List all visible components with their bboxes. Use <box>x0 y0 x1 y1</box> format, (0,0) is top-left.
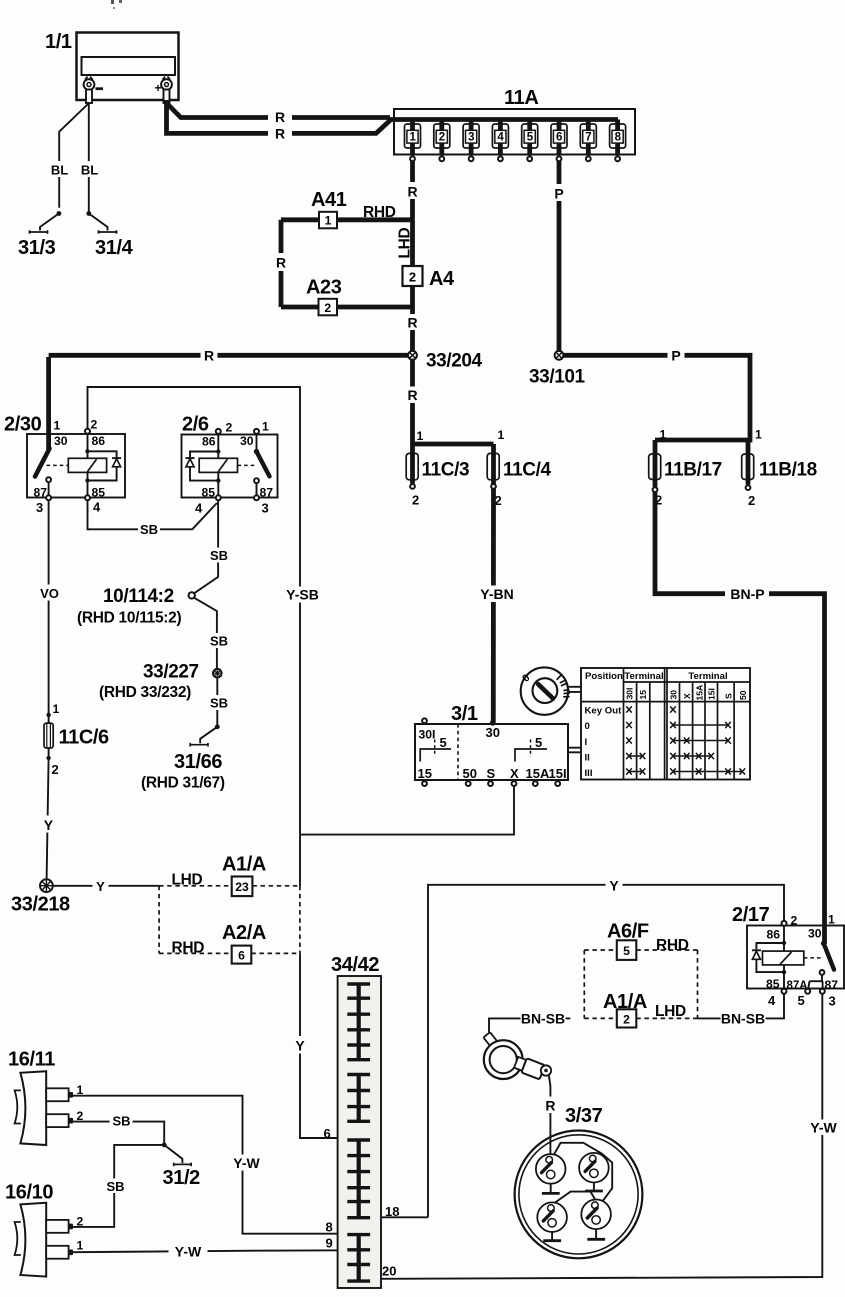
wire SB 16/11 pin2 to ground junction <box>73 1122 164 1145</box>
svg-text:3/1: 3/1 <box>451 703 478 725</box>
svg-text:50: 50 <box>463 766 477 781</box>
svg-text:15I: 15I <box>549 766 567 781</box>
svg-text:(RHD 31/67): (RHD 31/67) <box>141 775 225 792</box>
svg-text:1/1: 1/1 <box>45 31 72 53</box>
diode branch <box>756 943 784 972</box>
wire Y 11C/6 down to node 33/218 <box>47 748 49 879</box>
svg-text:3: 3 <box>829 994 836 1009</box>
fuse 11C/6 <box>44 702 109 777</box>
connector A4 pin 2 <box>403 266 456 290</box>
svg-text:III: III <box>585 768 593 779</box>
svg-text:SB: SB <box>140 522 158 537</box>
fuse 11C/4 <box>487 428 551 508</box>
svg-text:16/11: 16/11 <box>8 1049 55 1071</box>
svg-text:X: X <box>682 693 692 699</box>
svg-text:2: 2 <box>52 762 59 777</box>
wire SB 2/6 pin4 down to connector 10/114:2 <box>194 500 218 593</box>
svg-text:23: 23 <box>235 880 249 894</box>
svg-text:SB: SB <box>210 548 228 563</box>
wire BN-SB left to lamp socket <box>489 1018 570 1035</box>
svg-text:1: 1 <box>409 132 416 144</box>
svg-text:34/42: 34/42 <box>331 954 379 976</box>
svg-text:2/17: 2/17 <box>732 904 770 926</box>
svg-text:6: 6 <box>556 132 562 144</box>
wire horizontal 11C/3 to 11C/4 <box>413 442 494 447</box>
wire SB 33/227 to ground 31/66 <box>216 677 218 727</box>
svg-text:R: R <box>407 315 417 331</box>
svg-text:2: 2 <box>226 421 233 435</box>
wire SB junction down to 16/10 pin2 <box>73 1145 164 1227</box>
svg-text:Key Out: Key Out <box>585 706 623 717</box>
svg-text:15: 15 <box>638 690 648 700</box>
svg-text:1: 1 <box>498 428 505 442</box>
fuse 2 <box>434 120 450 162</box>
svg-text:Y-BN: Y-BN <box>480 586 513 602</box>
svg-text:30: 30 <box>240 434 254 448</box>
svg-text:6: 6 <box>324 1126 331 1141</box>
svg-text:11C/6: 11C/6 <box>59 727 110 749</box>
battery 1/1 <box>45 31 179 100</box>
svg-text:15I: 15I <box>707 688 717 700</box>
svg-text:8: 8 <box>615 132 622 144</box>
svg-text:18: 18 <box>385 1204 399 1219</box>
svg-text:15A: 15A <box>526 766 550 781</box>
svg-text:30: 30 <box>669 690 679 700</box>
bus wire <box>388 117 618 122</box>
svg-text:31/3: 31/3 <box>18 237 56 259</box>
node 33/204 <box>408 351 482 372</box>
svg-text:1: 1 <box>262 420 269 434</box>
svg-text:S: S <box>487 766 496 781</box>
wire P from 33/101 to 11B fuses <box>563 355 750 440</box>
svg-text:0: 0 <box>585 721 590 732</box>
svg-text:50: 50 <box>738 690 748 700</box>
coil wire <box>783 926 785 989</box>
svg-text:15: 15 <box>418 766 432 781</box>
svg-text:R: R <box>545 1098 555 1114</box>
svg-text:11A: 11A <box>504 87 538 109</box>
connector A2/A pin 6 <box>222 922 266 964</box>
fuse 7 <box>580 120 596 162</box>
svg-text:86: 86 <box>767 928 781 942</box>
bulb bottom-right <box>581 1200 611 1240</box>
node 33/218 <box>11 879 70 915</box>
lamp cluster 3/37 <box>515 1105 643 1258</box>
svg-text:2: 2 <box>791 914 798 928</box>
svg-text:1: 1 <box>755 428 762 442</box>
svg-text:30I: 30I <box>625 688 635 700</box>
svg-text:31/2: 31/2 <box>163 1167 201 1189</box>
svg-text:2: 2 <box>324 301 331 315</box>
svg-text:11C/3: 11C/3 <box>422 460 470 481</box>
svg-text:(RHD 10/115:2): (RHD 10/115:2) <box>77 610 181 627</box>
svg-text:30: 30 <box>808 927 822 941</box>
bulb top-left <box>536 1154 566 1193</box>
svg-text:1: 1 <box>660 428 667 442</box>
svg-text:3/37: 3/37 <box>565 1105 603 1127</box>
svg-text:SB: SB <box>210 696 228 711</box>
bulb socket with plug <box>483 1032 551 1079</box>
ignition key symbol <box>520 667 581 714</box>
svg-text:3: 3 <box>262 501 269 516</box>
node 33/227 <box>99 662 222 702</box>
connector 10/114:2 <box>77 586 195 627</box>
svg-text:Y-W: Y-W <box>175 1244 202 1260</box>
svg-text:15A: 15A <box>694 685 704 701</box>
svg-text:2: 2 <box>439 132 445 144</box>
coil <box>199 458 237 472</box>
svg-text:87: 87 <box>825 978 839 992</box>
fuse 11B/18 <box>742 428 817 509</box>
svg-text:R: R <box>275 109 285 125</box>
lamp 16/11 <box>8 1049 84 1146</box>
fuse 4 <box>492 120 508 162</box>
svg-text:30: 30 <box>486 725 500 740</box>
svg-text:1: 1 <box>828 913 835 927</box>
svg-text:11C/4: 11C/4 <box>503 460 551 481</box>
svg-text:Y-W: Y-W <box>810 1120 837 1136</box>
mech dashed link <box>238 464 258 466</box>
node 33/101 <box>529 351 586 388</box>
svg-text:VO: VO <box>40 586 59 601</box>
svg-text:P: P <box>554 186 563 202</box>
pin 87 bracket to 87A/87 <box>820 970 825 975</box>
svg-text:RHD: RHD <box>656 937 689 954</box>
wire R from 33/204 down to 11C fuses <box>410 360 415 444</box>
wire R horizontal 33/204 to relay 2/30 <box>49 353 413 358</box>
wire SB 2/30 pin4 to 2/6 pin4 <box>88 500 217 529</box>
ground 31/2 <box>162 1143 200 1190</box>
svg-text:20: 20 <box>382 1264 396 1279</box>
wire Y-W 16/10 pin1 to 34/42 pin 9 <box>73 1250 348 1252</box>
svg-text:87: 87 <box>260 486 274 500</box>
fuse 11C/3 <box>406 429 469 508</box>
internal trace top <box>550 1131 612 1203</box>
connector A1/A pin 23 <box>222 854 266 897</box>
wire Y-SB relay 2/30 pin2 up and right and down <box>88 387 301 886</box>
fuse 5 <box>522 120 538 162</box>
wire Y-W 16/11 pin1 to 34/42 pin 8 <box>73 1096 348 1234</box>
svg-text:A2/A: A2/A <box>222 922 266 944</box>
svg-text:30: 30 <box>54 434 68 448</box>
diode branch <box>88 451 117 480</box>
linkage to table <box>568 748 581 753</box>
svg-text:R: R <box>275 126 285 142</box>
svg-text:1: 1 <box>54 419 61 433</box>
svg-text:1: 1 <box>53 702 60 716</box>
fuse box 11A <box>388 87 635 155</box>
svg-text:Y: Y <box>295 1038 305 1054</box>
svg-text:86: 86 <box>92 434 106 448</box>
internal trace middle <box>554 1192 597 1204</box>
svg-text:5: 5 <box>527 132 534 144</box>
dashed option box LHD/RHD with A1/A and A2/A <box>159 872 300 957</box>
svg-text:31/4: 31/4 <box>95 237 134 259</box>
wire R left leg of A41/A23 loop <box>279 220 284 307</box>
svg-text:2: 2 <box>409 270 416 285</box>
svg-text:85: 85 <box>766 977 780 991</box>
svg-text:8: 8 <box>326 1220 333 1235</box>
svg-text:RHD: RHD <box>363 204 396 221</box>
svg-text:86: 86 <box>202 435 216 449</box>
svg-text:33/204: 33/204 <box>426 351 483 372</box>
coil wire <box>87 434 89 496</box>
ground 31/4 <box>86 211 133 259</box>
wire BL right from battery - to ground 31/4 <box>88 103 90 212</box>
svg-text:2: 2 <box>412 493 419 508</box>
connector A1/A pin 2 <box>603 991 647 1028</box>
svg-text:SB: SB <box>210 634 228 649</box>
svg-text:3: 3 <box>468 132 474 144</box>
svg-text:85: 85 <box>92 486 106 500</box>
svg-text:11B/18: 11B/18 <box>759 460 817 481</box>
contact left with position 5 <box>420 749 451 762</box>
battery negative terminal <box>84 77 103 104</box>
switch blade <box>35 449 50 477</box>
wire A23 loop bottom <box>281 305 413 310</box>
svg-text:2/6: 2/6 <box>182 414 209 436</box>
wire Y-BN 11C/4 down to ignition 30 <box>491 489 496 722</box>
svg-text:BL: BL <box>81 163 98 178</box>
fuse 3 <box>463 120 479 162</box>
svg-text:A1/A: A1/A <box>222 854 266 876</box>
svg-text:1: 1 <box>417 429 424 443</box>
wire Y horizontal to 2/17 pin2 and down to 34/42 pin 18 <box>428 885 784 1218</box>
svg-text:SB: SB <box>106 1179 124 1194</box>
svg-text:3: 3 <box>36 500 43 515</box>
svg-text:P: P <box>671 348 680 364</box>
svg-text:LHD: LHD <box>172 872 203 889</box>
svg-text:2: 2 <box>623 1013 630 1027</box>
svg-text:4: 4 <box>497 132 504 144</box>
wire R socket to 3/37 <box>549 1075 551 1131</box>
wire P from fuse 6 down to 33/101 <box>557 161 562 351</box>
svg-text:BN-SB: BN-SB <box>721 1011 765 1027</box>
svg-text:S: S <box>724 693 734 699</box>
svg-text:Y: Y <box>609 878 619 894</box>
svg-text:Y-SB: Y-SB <box>286 587 319 603</box>
svg-text:33/227: 33/227 <box>143 662 199 683</box>
switch wire + blade <box>256 434 258 452</box>
svg-text:31/66: 31/66 <box>174 751 222 773</box>
svg-text:4: 4 <box>93 500 101 515</box>
bulb bottom-left <box>537 1202 567 1240</box>
coil <box>763 951 804 965</box>
svg-text:R: R <box>276 255 286 271</box>
svg-text:BL: BL <box>51 163 68 178</box>
wire R battery + to fuse box (upper) <box>167 100 391 118</box>
svg-text:A23: A23 <box>306 277 342 299</box>
wire BN-P 11B/17 to relay 2/17 pin1 <box>655 492 825 944</box>
svg-text:I: I <box>585 737 588 748</box>
wire R down to relay 2/30 pin 1 <box>46 357 51 451</box>
svg-text:A4: A4 <box>429 268 455 290</box>
pins <box>422 781 427 786</box>
svg-text:33/218: 33/218 <box>11 894 70 916</box>
svg-text:Y: Y <box>96 879 105 894</box>
svg-text:X: X <box>510 766 519 781</box>
svg-text:Terminal: Terminal <box>624 671 663 682</box>
svg-text:LHD: LHD <box>655 1003 686 1020</box>
svg-text:11B/17: 11B/17 <box>664 460 722 481</box>
svg-text:R: R <box>407 387 417 403</box>
fuse 11B/17 <box>649 428 722 508</box>
wire VO 2/30 pin3 down to fuse 11C/6 <box>48 500 50 723</box>
ground 31/3 <box>18 211 61 259</box>
svg-text:II: II <box>585 753 591 764</box>
relay 2/6 <box>182 414 278 516</box>
pin 87 <box>254 478 259 483</box>
dashed option box RHD/LHD with A6/F and A1/A <box>584 937 697 1020</box>
svg-text:2: 2 <box>748 493 755 508</box>
wire pin 18 of 34/42 <box>370 1216 428 1218</box>
relay 2/30 <box>4 414 125 516</box>
wire Y-W 2/17 pin3 down to 34/42 pin 20 <box>370 994 822 1279</box>
connector A23 pin 2 <box>306 277 342 316</box>
svg-text:5: 5 <box>440 735 447 750</box>
fuse 1 <box>405 120 421 162</box>
svg-text:2/30: 2/30 <box>4 414 42 436</box>
svg-text:5: 5 <box>535 735 542 750</box>
svg-text:Terminal: Terminal <box>688 671 727 682</box>
wire A41 loop top <box>281 217 413 222</box>
svg-text:SB: SB <box>112 1114 130 1129</box>
diode branch <box>190 452 218 481</box>
switch blade <box>821 941 827 947</box>
table contact marks <box>626 706 745 774</box>
wire R main vertical fuse1 to 33/204 <box>410 220 415 351</box>
coil wire <box>217 434 219 495</box>
svg-text:33/101: 33/101 <box>529 367 586 388</box>
svg-text:+: + <box>155 81 162 95</box>
svg-text:4: 4 <box>195 501 203 516</box>
pin 87 <box>46 477 51 482</box>
svg-text:A41: A41 <box>311 189 347 211</box>
coil <box>68 458 106 472</box>
connector A41 pin 1 <box>311 189 347 228</box>
svg-text:85: 85 <box>202 486 216 500</box>
battery positive terminal <box>155 77 172 104</box>
svg-text:16/10: 16/10 <box>5 1182 53 1204</box>
svg-text:6: 6 <box>238 949 245 963</box>
fuse 6 <box>551 120 567 162</box>
wire R battery + to fuse box (lower) <box>167 103 392 133</box>
svg-text:9: 9 <box>326 1236 333 1251</box>
wire SB 10/114:2 to node 33/227 <box>194 598 217 669</box>
mech dashed link <box>804 957 823 959</box>
svg-text:2: 2 <box>91 418 98 432</box>
svg-text:Y-W: Y-W <box>233 1155 260 1171</box>
svg-text:Y: Y <box>44 817 54 833</box>
svg-text:R: R <box>407 184 417 200</box>
mech dashed link <box>47 464 69 466</box>
svg-text:(RHD 33/232): (RHD 33/232) <box>99 684 191 701</box>
wire R from fuse 1 down <box>410 161 415 220</box>
svg-text:10/114:2: 10/114:2 <box>103 586 174 607</box>
svg-text:Position: Position <box>585 671 623 682</box>
svg-text:BN-SB: BN-SB <box>521 1011 565 1027</box>
ignition switch 3/1 <box>415 703 581 786</box>
fuse 8 <box>610 120 626 162</box>
wire Y 33/218 to dashed LHD connector <box>53 885 159 887</box>
svg-text:1: 1 <box>77 1239 84 1253</box>
speck marks top edge <box>111 0 122 9</box>
svg-text:1: 1 <box>325 214 332 228</box>
connector strip 34/42 <box>331 954 381 1288</box>
wire from ignition X pin to Y-SB line <box>300 786 514 835</box>
contact right with position 5 <box>515 749 547 762</box>
svg-text:5: 5 <box>798 993 805 1008</box>
svg-text:30I: 30I <box>419 728 436 742</box>
svg-text:RHD: RHD <box>172 940 205 957</box>
svg-text:LHD: LHD <box>397 227 414 258</box>
wire Y dashed-box to 34/42 pin 6 <box>300 953 348 1138</box>
svg-text:7: 7 <box>585 132 591 144</box>
svg-text:4: 4 <box>768 993 776 1008</box>
svg-text:A6/F: A6/F <box>607 921 649 943</box>
wire BN-SB 2/17 pin4 down/left to A1/A LHD <box>698 994 785 1019</box>
svg-text:BN-P: BN-P <box>730 586 764 602</box>
ground 31/66 <box>141 724 225 791</box>
svg-text:R: R <box>204 348 214 364</box>
pin 2 circle <box>85 429 90 434</box>
connector A6/F pin 5 <box>607 921 649 960</box>
relay 2/17 <box>732 904 844 1009</box>
svg-text:2: 2 <box>77 1215 84 1229</box>
wire BL left from battery - to ground 31/3 <box>59 103 89 208</box>
svg-text:5: 5 <box>623 944 630 958</box>
lamp 16/10 <box>5 1182 84 1277</box>
ignition position table <box>581 668 750 780</box>
bulb top-right <box>579 1153 609 1191</box>
